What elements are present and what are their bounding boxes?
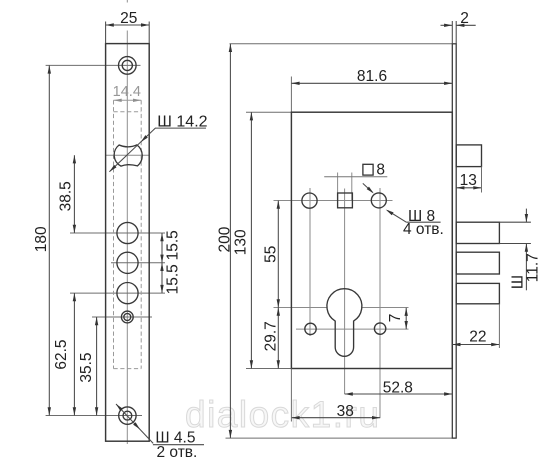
hole row 1 bbox=[117, 222, 138, 243]
svg-text:4 отв.: 4 отв. bbox=[403, 221, 444, 238]
dim 130 bbox=[250, 112, 252, 368]
dim 38.5 bbox=[73, 155, 75, 233]
latch bolt bbox=[456, 145, 481, 167]
top screw hole bbox=[119, 57, 137, 75]
extension line hole row 2 bbox=[111, 262, 165, 264]
centerline left holes vertical bbox=[309, 188, 311, 336]
dim 13 bbox=[456, 187, 481, 189]
faceplate strip side view bbox=[452, 44, 456, 438]
extension line hole row 1 bbox=[70, 232, 165, 234]
extension line body bottom bbox=[246, 368, 291, 370]
leader square8 bbox=[363, 183, 373, 192]
bottom right hole bbox=[374, 323, 385, 334]
dim 25 bbox=[106, 22, 150, 44]
centerline cylinder left bbox=[274, 307, 328, 309]
faceplate centerline bbox=[126, 0, 128, 444]
svg-text:62.5: 62.5 bbox=[53, 340, 70, 370]
leader Sh8 bbox=[388, 211, 407, 223]
svg-text:38.5: 38.5 bbox=[58, 181, 75, 211]
label square8 leader underline bbox=[324, 176, 387, 178]
faceplate outline bbox=[106, 44, 150, 442]
svg-text:15.5: 15.5 bbox=[165, 230, 182, 260]
centerline top hole row bbox=[274, 200, 393, 202]
leader underline Sh4.5 bbox=[153, 444, 204, 446]
small ring hole bbox=[121, 311, 133, 323]
svg-text:38: 38 bbox=[337, 403, 354, 420]
dim 62.5 bbox=[73, 293, 75, 415]
svg-text:8: 8 bbox=[376, 162, 385, 179]
bottom left hole bbox=[305, 323, 316, 334]
euro cylinder hole bbox=[327, 289, 362, 357]
svg-text:130: 130 bbox=[233, 229, 250, 255]
extension line 81.6 bbox=[290, 77, 292, 113]
dim 7 bbox=[405, 308, 407, 330]
extension 13 right bbox=[481, 167, 483, 193]
svg-text:29.7: 29.7 bbox=[262, 321, 279, 351]
hidden dashed slot outline bbox=[114, 100, 142, 368]
leader underline Sh8 bbox=[406, 221, 440, 223]
dim 14.4 bbox=[114, 99, 142, 101]
dim 22 bbox=[452, 344, 499, 346]
svg-text:Ш 14.2: Ш 14.2 bbox=[157, 113, 207, 130]
svg-text:11.7: 11.7 bbox=[525, 253, 542, 282]
extension line bottom strip bbox=[226, 437, 457, 439]
svg-text:22: 22 bbox=[469, 329, 486, 346]
follower hole Sh14.2 bbox=[114, 145, 142, 166]
dim 15.5 upper bbox=[161, 233, 163, 263]
extension 22 right bbox=[498, 304, 500, 348]
svg-text:81.6: 81.6 bbox=[357, 68, 387, 85]
dim 11.7 bbox=[499, 209, 531, 291]
svg-text:Ш: Ш bbox=[510, 275, 527, 289]
svg-text:14.4: 14.4 bbox=[113, 84, 141, 100]
extension square hole left bbox=[337, 173, 339, 201]
extension line hole row 3 bbox=[70, 292, 165, 294]
square spindle hole bbox=[338, 193, 353, 208]
extension line bottom hole bbox=[46, 415, 142, 417]
centerline cylinder right bbox=[362, 307, 409, 309]
centerline right holes vertical bbox=[379, 188, 381, 418]
dim 2 bbox=[441, 21, 476, 44]
deadbolt 3 bbox=[456, 283, 499, 303]
dim 29.7 bbox=[277, 308, 279, 369]
extension line body top bbox=[246, 111, 291, 113]
leader underline Sh14.2 bbox=[155, 127, 206, 129]
svg-text:15.5: 15.5 bbox=[165, 264, 182, 294]
svg-text:25: 25 bbox=[120, 10, 137, 27]
svg-text:2: 2 bbox=[460, 10, 469, 27]
svg-text:35.5: 35.5 bbox=[78, 353, 95, 383]
dim 35.5 bbox=[96, 317, 98, 416]
centerline cylinder vertical bbox=[344, 189, 346, 395]
top left hole bbox=[302, 193, 317, 208]
lock body outline bbox=[291, 112, 452, 368]
dim 180 bbox=[48, 65, 50, 415]
svg-text:180: 180 bbox=[33, 226, 50, 252]
bottom screw hole bbox=[119, 407, 136, 424]
hole row 2 bbox=[117, 252, 138, 273]
dim 52.8 bbox=[345, 393, 453, 395]
dim 200 bbox=[229, 44, 231, 438]
projection line top bbox=[230, 43, 453, 45]
extension square hole right bbox=[351, 173, 353, 201]
svg-text:2 отв.: 2 отв. bbox=[157, 444, 198, 459]
dim 38 bbox=[291, 417, 380, 419]
svg-text:13: 13 bbox=[460, 172, 477, 189]
extension line small ring bbox=[92, 316, 152, 318]
label square glyph bbox=[363, 164, 373, 175]
dim 55 bbox=[277, 201, 279, 308]
svg-text:7: 7 bbox=[387, 314, 404, 323]
centerline bottom hole row bbox=[296, 328, 409, 330]
deadbolt 1 bbox=[456, 222, 499, 243]
svg-text:200: 200 bbox=[217, 226, 234, 252]
leader Sh4.5 bbox=[116, 404, 153, 443]
dim 81.6 bbox=[291, 82, 452, 84]
centerline follower hole bbox=[106, 154, 149, 156]
centerline top hole bbox=[46, 64, 141, 66]
leader Sh14.2 bbox=[109, 128, 155, 172]
deadbolt 2 bbox=[456, 252, 499, 274]
dim 15.5 lower bbox=[161, 263, 163, 293]
svg-text:55: 55 bbox=[262, 246, 279, 263]
top right hole bbox=[371, 193, 386, 208]
svg-text:52.8: 52.8 bbox=[383, 379, 413, 396]
extension 38 left bbox=[290, 369, 292, 422]
hole row 3 bbox=[117, 283, 138, 304]
